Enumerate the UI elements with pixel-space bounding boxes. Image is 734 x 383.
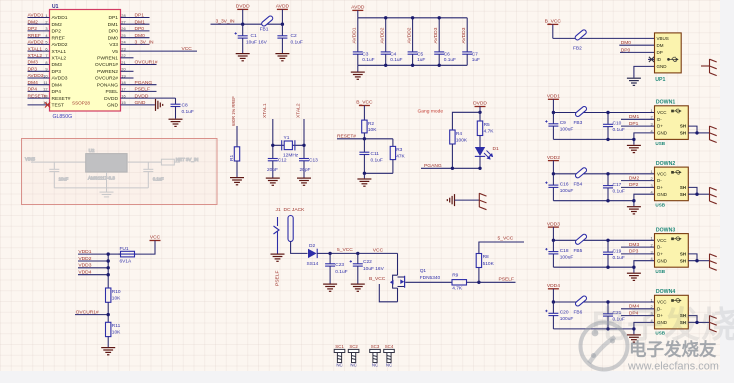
capacitor C20 100uF <box>545 302 573 329</box>
wire DP2 to DOWN2 <box>621 182 655 188</box>
wire VDD2 rail <box>553 173 654 175</box>
svg-text:AVDD1: AVDD1 <box>52 15 68 21</box>
U1 pin 28 DP1 wire and label <box>108 13 149 22</box>
svg-text:1: 1 <box>45 13 47 18</box>
svg-text:C16: C16 <box>560 181 569 187</box>
U1 pin 11 DM4 wire and label <box>28 80 63 89</box>
svg-text:R2: R2 <box>368 121 374 127</box>
svg-text:GND: GND <box>657 258 668 263</box>
svg-text:VCC: VCC <box>657 110 667 115</box>
svg-text:C1: C1 <box>251 33 257 39</box>
svg-text:20pF: 20pF <box>300 167 311 173</box>
shield symbol DOWN1 <box>710 126 717 143</box>
wire DOWN2 SH pins to shield <box>688 187 709 196</box>
wire VDD1 rail <box>553 112 654 114</box>
svg-text:VDD1: VDD1 <box>547 94 560 100</box>
diode D2 SS14 <box>307 243 331 267</box>
svg-text:12: 12 <box>43 87 47 92</box>
wire DOWN4 SH pins to shield <box>688 316 709 324</box>
resistor R4 100K <box>450 112 480 168</box>
ground below DOWN1 <box>627 145 641 152</box>
svg-text:SH: SH <box>680 192 686 197</box>
svg-text:SH: SH <box>680 185 686 190</box>
junction C5 top/bottom <box>411 16 414 67</box>
svg-text:V33: V33 <box>109 42 118 48</box>
svg-text:DVDD: DVDD <box>236 4 250 10</box>
junction R8/R9 <box>477 281 480 284</box>
wire DM2 to DOWN2 <box>621 175 655 181</box>
svg-text:DP: DP <box>657 50 663 55</box>
junction VDD bus <box>107 252 110 276</box>
svg-text:C7: C7 <box>472 52 478 58</box>
wire DP1 to DOWN1 <box>621 121 655 127</box>
net VDD3 wire <box>78 263 108 269</box>
svg-text:RESET#: RESET# <box>52 96 71 102</box>
svg-text:C9: C9 <box>560 120 566 126</box>
junction DVDD gang <box>478 111 481 114</box>
svg-text:100uF: 100uF <box>560 188 574 194</box>
junction VDD1 rail left <box>552 111 555 114</box>
svg-text:DC JACK: DC JACK <box>284 207 306 213</box>
wire DOWN4 GND pin to ground <box>634 322 655 334</box>
wire DOWN4 bottom rail <box>553 328 634 330</box>
resistor R5 4.7K <box>477 112 494 135</box>
svg-text:J1: J1 <box>276 207 281 213</box>
svg-text:VDD1: VDD1 <box>78 249 91 255</box>
svg-text:1: 1 <box>651 108 653 113</box>
capacitor C12 20pF <box>267 158 287 178</box>
svg-text:23: 23 <box>121 46 125 51</box>
ground below AVDD rail <box>351 65 365 79</box>
junction VDD2 rail left <box>552 172 555 175</box>
svg-text:R5: R5 <box>484 122 490 128</box>
svg-text:R4: R4 <box>456 131 462 137</box>
net XTAL2 wire <box>296 103 305 158</box>
svg-text:0.1uF: 0.1uF <box>182 109 194 115</box>
capacitor C17 0.1uF <box>603 174 625 201</box>
svg-text:6V1A: 6V1A <box>120 259 133 265</box>
svg-text:R10: R10 <box>112 289 121 295</box>
svg-text:4.7K: 4.7K <box>452 286 463 292</box>
svg-text:D1: D1 <box>493 146 500 152</box>
capacitor C22 10uF 16V <box>350 253 385 283</box>
svg-text:Gang mode: Gang mode <box>418 109 444 115</box>
svg-text:15: 15 <box>121 100 125 105</box>
junction reset bottom <box>363 172 366 175</box>
U1 pin 1 AVDD1 wire and label <box>28 13 68 22</box>
svg-text:DM2: DM2 <box>28 19 39 25</box>
U1 pin 16 DVDD wire and label <box>104 93 175 102</box>
junction R4/PGANG <box>451 167 454 170</box>
U1 pin 5 AVDD2 wire and label <box>28 40 68 49</box>
connector DOWN4 USB downstream <box>651 289 689 335</box>
svg-text:C23: C23 <box>335 262 344 268</box>
U1 pin 7 XTAL2 wire and label <box>28 53 67 62</box>
net OVCUR1# wire <box>75 309 108 315</box>
svg-text:GND: GND <box>657 192 668 197</box>
svg-text:R3: R3 <box>396 147 402 153</box>
svg-text:FB1: FB1 <box>260 27 269 33</box>
svg-text:DM1: DM1 <box>629 114 640 120</box>
svg-text:VDD2: VDD2 <box>547 155 560 161</box>
svg-text:C4: C4 <box>390 52 396 58</box>
wire DM1 to DOWN1 <box>621 114 655 120</box>
power B_VCC upstream <box>545 19 655 39</box>
fuse FU1 6V1A <box>108 246 136 265</box>
svg-text:TEST: TEST <box>52 103 65 109</box>
wire DOWN3 bottom rail <box>553 266 634 268</box>
svg-text:SS14: SS14 <box>307 261 319 267</box>
junction AVDD branch <box>281 23 284 26</box>
svg-text:2: 2 <box>45 20 47 25</box>
svg-text:20pF: 20pF <box>267 167 278 173</box>
svg-text:DOWN1: DOWN1 <box>656 100 675 106</box>
svg-text:DM2: DM2 <box>629 175 640 181</box>
svg-text:AVDD: AVDD <box>276 4 290 10</box>
svg-text:6: 6 <box>45 46 47 51</box>
U1 pin 22 PWREN1 wire and label <box>97 53 133 61</box>
U1 pin 19 OVCUR2# wire and label <box>95 73 134 81</box>
svg-text:0.1uF: 0.1uF <box>390 57 402 63</box>
svg-text:7: 7 <box>45 53 47 58</box>
svg-text:VDD3: VDD3 <box>547 221 560 227</box>
ground below R11 <box>101 348 115 355</box>
net PSELF wire <box>479 277 516 283</box>
U1 pin 12 DP4 wire and label <box>28 87 62 96</box>
capacitor C23 0.1uF <box>325 253 348 283</box>
junction VDD4 rail left <box>552 300 555 303</box>
svg-text:AVDD3: AVDD3 <box>461 27 467 43</box>
svg-text:16: 16 <box>121 93 125 98</box>
op-amp U1 GL850G hub controller body <box>50 4 121 120</box>
svg-text:9: 9 <box>45 67 47 72</box>
junction DOWN2 ground <box>632 199 635 202</box>
svg-text:2: 2 <box>651 243 653 248</box>
svg-text:PWREN1: PWREN1 <box>97 56 118 62</box>
wire VDD bus vertical <box>107 254 109 288</box>
wire AVDD bottom rail <box>358 64 467 66</box>
ferrite bead FB3 <box>574 106 588 127</box>
junction C19 top <box>606 239 609 242</box>
U1 pin 25 DM0 wire and label <box>108 33 150 42</box>
svg-text:DP1: DP1 <box>108 15 118 21</box>
svg-text:DM3: DM3 <box>52 62 63 68</box>
svg-text:B_VCC: B_VCC <box>545 19 562 25</box>
svg-text:DM1: DM1 <box>135 19 146 25</box>
svg-text:10uF: 10uF <box>59 177 69 182</box>
svg-text:DOWN4: DOWN4 <box>656 289 675 295</box>
svg-text:DM4: DM4 <box>28 80 39 86</box>
capacitor C10 0.1uF <box>603 113 625 140</box>
svg-text:DOWN2: DOWN2 <box>656 161 675 167</box>
svg-text:DP2: DP2 <box>629 182 639 188</box>
svg-text:D-: D- <box>657 245 662 250</box>
junction C17 bottom <box>606 199 609 202</box>
svg-text:FDN5340: FDN5340 <box>420 275 441 281</box>
svg-text:VCC: VCC <box>182 46 193 52</box>
net VDD2 wire <box>78 256 108 262</box>
svg-text:PSELF: PSELF <box>499 277 515 283</box>
svg-text:3: 3 <box>45 26 47 31</box>
svg-text:47K: 47K <box>396 154 405 160</box>
U1 pin 3 DP2 wire and label <box>28 26 62 34</box>
wire VDD4 rail <box>553 301 654 303</box>
ground below DOWN4 <box>627 335 641 342</box>
ground below C2 <box>275 54 289 61</box>
wire DM3 to DOWN3 <box>621 242 655 248</box>
svg-text:FB5: FB5 <box>574 248 583 254</box>
svg-text:U1: U1 <box>52 4 59 10</box>
svg-text:NC: NC <box>336 362 342 367</box>
svg-text:DM0: DM0 <box>108 35 119 41</box>
svg-text:D-: D- <box>657 178 662 183</box>
svg-text:1uF: 1uF <box>472 57 480 63</box>
power VCC at fuse <box>135 235 161 254</box>
junction XTAL1/Y1 <box>271 144 274 147</box>
svg-text:D+: D+ <box>657 252 663 257</box>
junction C21 bottom <box>606 327 609 330</box>
wire DOWN3 GND pin to ground <box>634 261 655 273</box>
svg-text:D2: D2 <box>309 243 315 249</box>
svg-text:C6: C6 <box>444 52 450 58</box>
net VDD4 wire <box>78 270 108 276</box>
ferrite bead FB2 <box>573 29 587 52</box>
svg-text:0.1uF: 0.1uF <box>444 57 456 63</box>
svg-text:RREF: RREF <box>28 33 41 39</box>
svg-text:RESET#: RESET# <box>337 134 356 140</box>
svg-text:680R 1% RREF: 680R 1% RREF <box>231 96 236 126</box>
svg-text:21: 21 <box>121 60 125 65</box>
wire DOWN3 SH pins to shield <box>688 254 709 263</box>
svg-text:25: 25 <box>121 33 125 38</box>
capacitor C16 100uF <box>545 174 573 201</box>
svg-text:0.1uF: 0.1uF <box>335 269 347 275</box>
junction DOWN4 ground <box>632 327 635 330</box>
svg-text:AVDD3: AVDD3 <box>433 27 439 43</box>
ferrite bead FB4 <box>574 167 588 188</box>
svg-text:10K: 10K <box>368 127 377 133</box>
ground rotated for shield tie <box>447 194 454 206</box>
screw SC3 <box>370 344 381 368</box>
svg-text:DM3: DM3 <box>28 60 39 66</box>
resistor R11 10K <box>106 322 122 347</box>
wire VDD3 rail <box>553 239 654 241</box>
svg-text:C11: C11 <box>371 151 380 157</box>
net VDD1 wire <box>78 249 108 255</box>
svg-text:AVDD3: AVDD3 <box>28 73 44 79</box>
svg-text:0.1uF: 0.1uF <box>291 40 303 46</box>
capacitor C2 0.1uF <box>277 24 302 53</box>
capacitor C1 10uF 16V <box>235 24 268 53</box>
resistor R8 510K <box>476 254 494 283</box>
svg-text:1uF: 1uF <box>417 57 425 63</box>
ground below C1 <box>236 54 250 61</box>
svg-text:DP0: DP0 <box>108 29 118 35</box>
shield symbol chassis <box>479 193 486 210</box>
net XTAL1 wire <box>262 103 273 158</box>
svg-text:AVDD3: AVDD3 <box>52 76 68 82</box>
svg-text:B_VCC: B_VCC <box>369 276 386 282</box>
capacitor C8 0.1uF <box>171 103 194 119</box>
U1 pin 14 TEST wire and label <box>28 100 65 108</box>
svg-text:GND: GND <box>657 64 668 69</box>
U1 pin 6 XTAL1 wire and label <box>28 46 67 55</box>
connector DOWN2 USB downstream <box>651 161 689 207</box>
ground below UP1 <box>627 78 641 85</box>
svg-text:11: 11 <box>43 80 47 85</box>
svg-text:B_VCC: B_VCC <box>356 100 373 106</box>
LED D1 <box>475 136 499 169</box>
U1 pin 20 PWREN2 wire and label <box>97 67 133 75</box>
svg-text:D+: D+ <box>657 185 663 190</box>
net 3_3V_IN label and wire <box>211 19 283 25</box>
svg-text:VDD3: VDD3 <box>78 263 91 269</box>
power VDD4 <box>547 283 560 302</box>
svg-text:100K: 100K <box>456 137 468 143</box>
svg-text:0.1uF: 0.1uF <box>153 177 164 182</box>
svg-text:电子发烧友: 电子发烧友 <box>629 340 717 360</box>
junction C10 top <box>606 111 609 114</box>
svg-text:AVDD1: AVDD1 <box>28 13 44 19</box>
connector DOWN3 USB downstream <box>651 227 689 273</box>
junction C4 top/bottom <box>384 16 387 67</box>
junction DOWN3 ground <box>632 266 635 269</box>
svg-text:DP3: DP3 <box>28 67 38 73</box>
svg-text:10K: 10K <box>112 330 121 336</box>
ground rotated at U1 GND pin15 <box>156 99 163 111</box>
junction C6 top/bottom <box>438 16 441 67</box>
net RESET# wire <box>337 134 393 140</box>
svg-text:26: 26 <box>121 26 125 31</box>
svg-text:FB4: FB4 <box>574 181 583 187</box>
ground below C23 <box>323 284 337 291</box>
svg-text:NC: NC <box>372 362 378 367</box>
svg-text:PGANG: PGANG <box>135 80 153 86</box>
svg-text:100uF: 100uF <box>560 127 574 133</box>
capacitor C7 1uF on net AVDD3 <box>461 18 480 66</box>
svg-text:VCC: VCC <box>657 171 667 176</box>
svg-text:DP1: DP1 <box>629 121 639 127</box>
svg-text:DM2: DM2 <box>52 22 63 28</box>
svg-text:FU1: FU1 <box>120 246 129 252</box>
wire UP1 GND to ground <box>634 66 655 77</box>
U1 pin 4 RREF wire and label <box>28 33 65 42</box>
junction XTAL2/Y1 <box>302 144 305 147</box>
shield symbol DOWN2 <box>710 187 717 204</box>
capacitor C21 0.1uF <box>603 302 625 329</box>
svg-text:3: 3 <box>651 249 653 254</box>
net PSELF vertical label at J1 <box>274 270 280 286</box>
svg-text:PSELF: PSELF <box>274 270 280 286</box>
svg-text:Y1: Y1 <box>284 135 290 141</box>
svg-text:SSOP28: SSOP28 <box>72 101 90 106</box>
svg-text:DVDD: DVDD <box>473 101 487 107</box>
power VDD2 <box>547 155 560 174</box>
wire DVDD pin16 to C8 <box>175 98 177 103</box>
svg-text:C13: C13 <box>309 158 318 164</box>
svg-text:XTAL1: XTAL1 <box>28 46 43 52</box>
svg-text:DP0: DP0 <box>621 47 631 53</box>
svg-text:8: 8 <box>45 60 47 65</box>
connector J1 DC JACK <box>274 207 306 254</box>
junction C22 <box>356 252 359 255</box>
svg-text:2: 2 <box>651 176 653 181</box>
svg-text:PONANG: PONANG <box>97 82 118 88</box>
net B_VCC at Q1 <box>369 276 398 302</box>
wire DOWN2 bottom rail <box>553 200 634 202</box>
svg-text:17: 17 <box>121 87 125 92</box>
svg-text:1: 1 <box>651 236 653 241</box>
power AVDD rail <box>351 5 365 18</box>
svg-text:R11: R11 <box>112 323 121 329</box>
power DVDD <box>236 4 250 25</box>
capacitor C9 100uF <box>545 113 573 140</box>
svg-text:C22: C22 <box>363 259 372 265</box>
svg-text:10K: 10K <box>112 295 121 301</box>
svg-text:22: 22 <box>121 53 125 58</box>
junction C21 top <box>606 300 609 303</box>
shield symbol near UP1 <box>701 59 717 76</box>
svg-text:C5: C5 <box>417 52 423 58</box>
wire DP0 to UP1 <box>620 47 655 53</box>
resistor R10 10K <box>106 288 122 322</box>
screw SC4 <box>384 344 395 368</box>
U1 pin 24 V33 wire and label <box>109 40 154 49</box>
svg-text:5_VCC: 5_VCC <box>337 247 353 253</box>
svg-text:3: 3 <box>651 183 653 188</box>
svg-text:PSEL: PSEL <box>105 89 118 95</box>
connector UP1 USB upstream <box>655 33 682 83</box>
ground below C13 <box>297 178 311 185</box>
U1 pin 23 V5 wire and label <box>112 46 197 55</box>
junction DOWN1 ground <box>632 138 635 141</box>
svg-text:AVDD1: AVDD1 <box>352 27 358 43</box>
svg-text:DP4: DP4 <box>52 89 62 95</box>
power AVDD <box>276 4 290 25</box>
power VDD1 <box>547 94 560 113</box>
svg-text:D-: D- <box>657 117 662 122</box>
svg-text:DP4: DP4 <box>28 87 38 93</box>
svg-text:4.7K: 4.7K <box>484 128 495 134</box>
net 5_VCC at R8 <box>479 235 524 253</box>
junction RESET# <box>363 137 366 140</box>
svg-text:0.1uF: 0.1uF <box>613 188 625 194</box>
svg-text:27: 27 <box>121 20 125 25</box>
screw SC1 <box>334 344 345 368</box>
U1 pin 8 DM3 wire and label <box>28 60 63 68</box>
svg-text:100uF: 100uF <box>560 316 574 322</box>
U1 pin 17 PSEL wire and label <box>105 87 156 96</box>
wire DM0 to UP1 <box>619 40 654 46</box>
ground below C11 <box>357 173 371 186</box>
U1 pin 10 AVDD3 wire and label <box>28 73 68 82</box>
svg-text:U2: U2 <box>89 148 95 153</box>
wire DP4 to DOWN4 <box>621 310 655 316</box>
svg-text:D+: D+ <box>657 124 663 129</box>
svg-text:AVDD2: AVDD2 <box>406 27 412 43</box>
U1 pin 2 DM2 wire and label <box>28 19 63 28</box>
capacitor C11 0.1uF <box>359 139 382 174</box>
svg-text:XTAL1: XTAL1 <box>262 103 268 118</box>
U1 pin 18 PONANG wire and label <box>97 80 157 89</box>
svg-text:SH: SH <box>680 131 686 136</box>
svg-text:PSELF: PSELF <box>135 87 151 93</box>
capacitor C13 20pF <box>299 158 318 178</box>
svg-text:SC4: SC4 <box>385 344 394 349</box>
svg-text:C20: C20 <box>560 310 569 316</box>
svg-text:C12: C12 <box>278 158 287 164</box>
svg-text:10uF 16V: 10uF 16V <box>363 266 385 272</box>
